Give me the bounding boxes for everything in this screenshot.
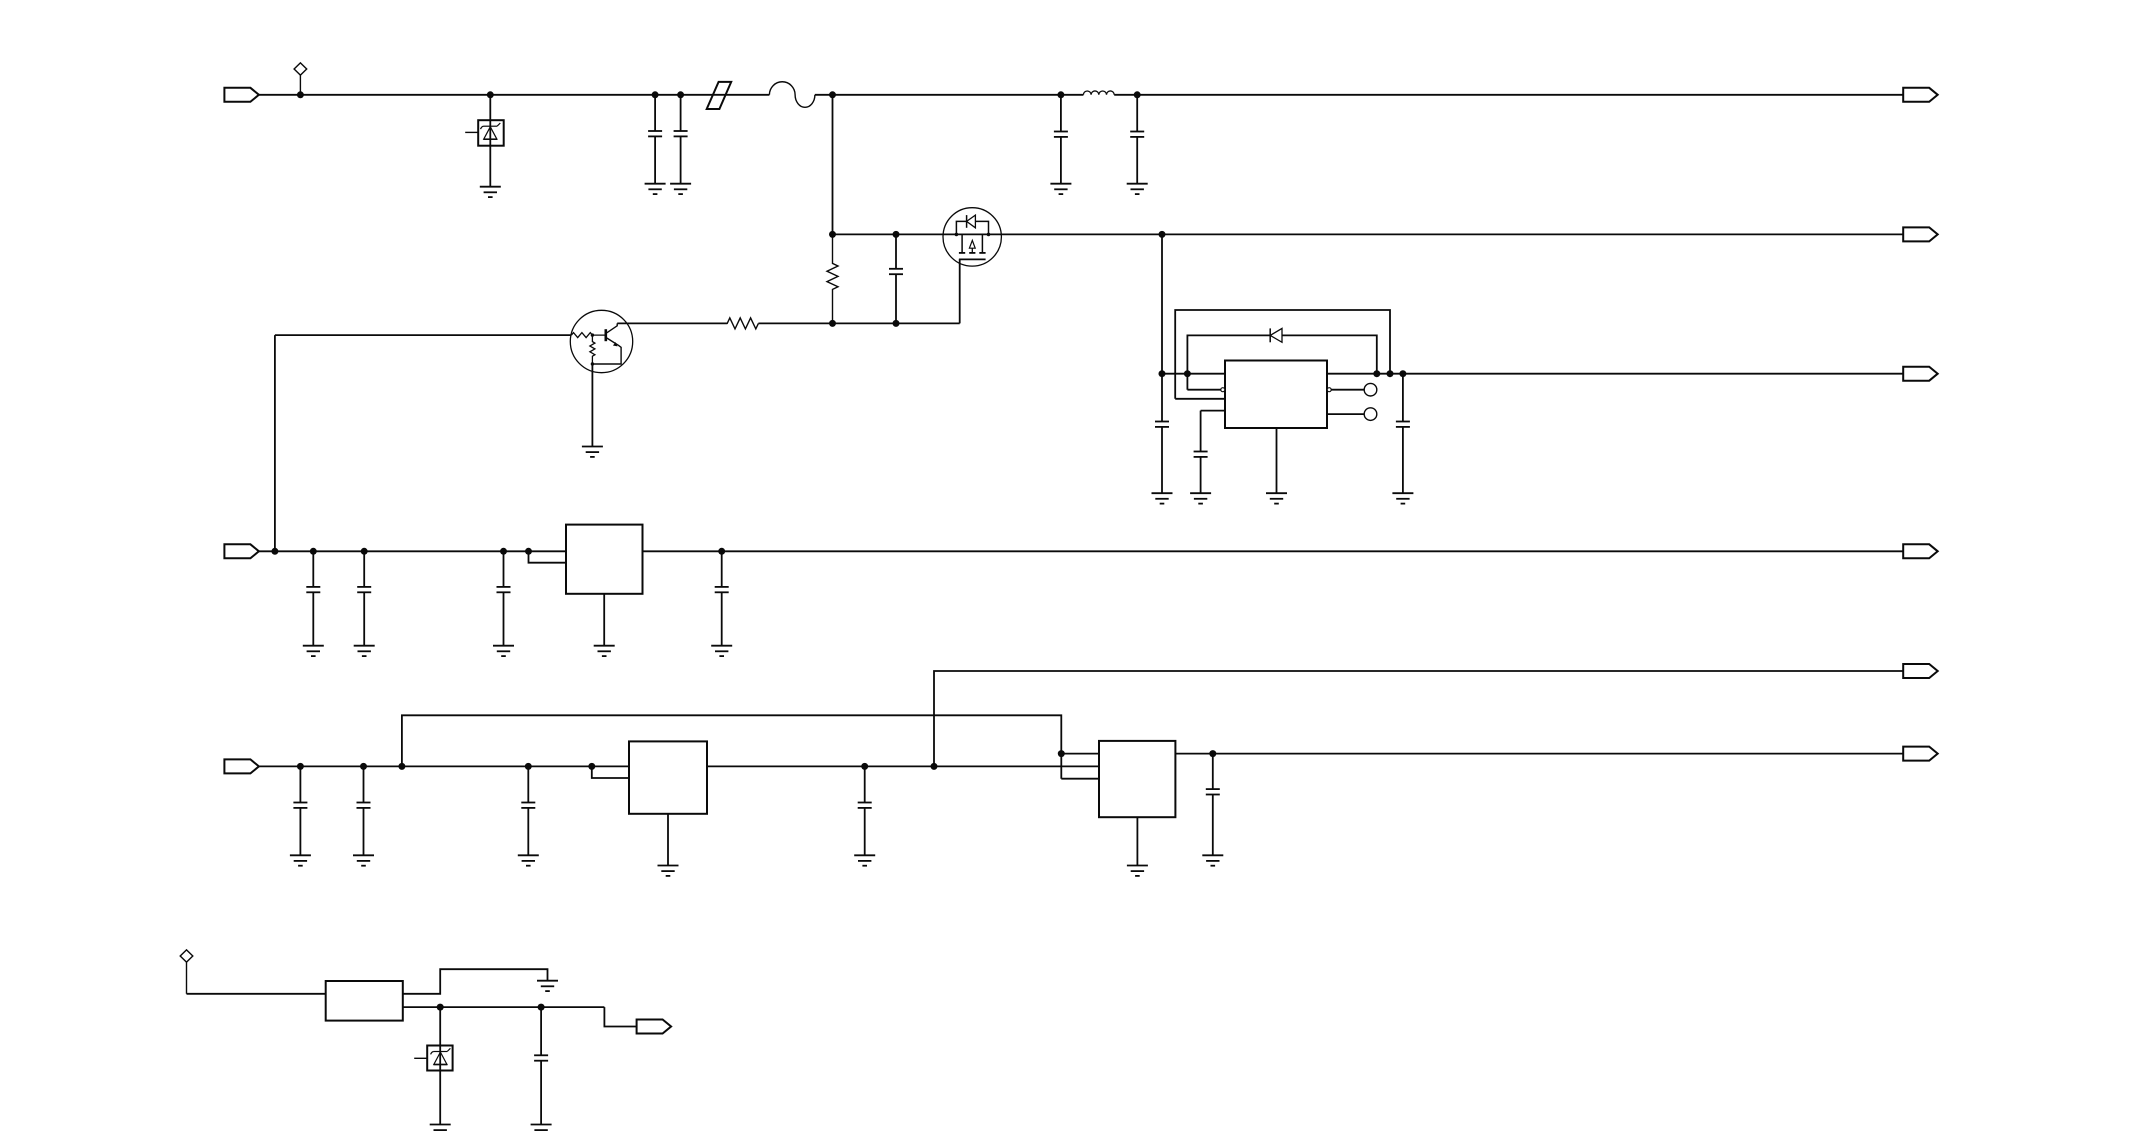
wire Q1 emitter to gnd [591,364,593,447]
capacitor C6 [1155,374,1169,494]
junction row5 sense tap [931,763,938,770]
wire U2 EN step [529,551,567,562]
connector J3 (right, row2) [1903,227,1938,241]
wire row1 to L2 [833,94,1084,96]
capacitor C17 [1206,754,1220,856]
U1 pin2 inversion circle [1221,388,1225,392]
junction row2 to U1 [1159,231,1166,238]
wire row5 out [1175,753,1903,755]
ground below C12 [711,646,732,656]
capacitor C9 [306,551,320,645]
junction row4 C9 [310,548,317,555]
ground FL1 [537,981,558,991]
wire U1 pin2 [1187,389,1220,391]
TVS diode D1 [465,120,504,146]
ground below C6 [1152,493,1173,503]
wire gate line [617,322,960,324]
wire U1 diode branch [1187,335,1376,389]
junction row1 node A [829,91,836,98]
junction row3 diode right [1373,370,1380,377]
junction bottom TVS tap [437,1004,444,1011]
ground below C13 [290,855,311,865]
wire row2 main [833,233,1904,235]
wire EN net [402,715,1099,778]
wire U4 gnd pin [1136,817,1138,865]
capacitor C2 [674,95,688,184]
connector J2 (right, row1) [1903,88,1938,102]
wire U1 top feedback [1175,310,1390,399]
junction row4 base tap [271,548,278,555]
junction gate line R1 [829,320,836,327]
ground below U4 [1127,866,1148,876]
junction row1 C3 [1057,91,1064,98]
IC U4 box [1099,741,1175,817]
resistor R2 [727,318,758,329]
capacitor C11 [497,551,511,645]
testpoint TP2 [1364,408,1377,421]
junction row4 EN tap [525,548,532,555]
ground below D3 [430,1125,451,1132]
junction row5 EN net tap [398,763,405,770]
wire U1 out3 [1327,413,1364,415]
capacitor C18 [534,1007,548,1124]
wire FL1 gnd loop [403,969,548,994]
junction row1 C4 [1134,91,1141,98]
capacitor C12 [715,551,729,645]
junction row5 C15 [525,763,532,770]
junction row1 C1 [652,91,659,98]
junction row1 diamond [297,91,304,98]
junction row5 C17 [1209,750,1216,757]
ground below U1 [1266,493,1287,503]
capacitor C1 [648,95,662,184]
inductor hump L1 (bead) [769,82,832,108]
connector J6 (right, row4) [1903,544,1938,558]
junction row4 C11 [500,548,507,555]
junction Q1 emitter node [591,362,594,365]
ground below C2 [670,184,691,194]
capacitor C4 [1130,95,1144,184]
wire row3 main [1162,373,1903,375]
wire node A down [832,95,834,235]
inductor L2 [1083,91,1114,95]
capacitor C14 [357,766,371,855]
diode D2 [1270,328,1282,342]
IC U2 box [566,525,643,594]
wire U3 gnd pin [667,814,669,866]
transistor Q2 (P-MOSFET with body diode) [943,208,1001,266]
wire U1 gnd pin [1276,428,1278,493]
wire row4 main [259,550,1903,552]
testpoint TP1 [1364,383,1377,396]
capacitor C3 [1054,95,1068,184]
ground below C7 [1190,493,1211,503]
junction row5 C16 [861,763,868,770]
ground below C16 [854,855,875,865]
wire U2 gnd pin [603,594,605,646]
ground below C17 [1202,855,1223,865]
U1 out2 inversion circle [1327,388,1331,392]
wire bottom out step [604,1007,636,1026]
capacitor C7 [1194,452,1208,494]
junction row3 left [1159,370,1166,377]
capacitor C10 [357,551,371,645]
IC U3 box [629,741,707,813]
wire Q2 gate down [959,259,961,323]
wire Q1 base [275,334,572,336]
ground below C15 [518,855,539,865]
ground below C14 [353,855,374,865]
capacitor C8 [1396,374,1410,494]
resistor R1 [827,234,838,323]
ground below Q1 [582,447,603,457]
wire U4 vin pin [1061,753,1099,755]
wire sense line [934,671,1903,766]
ground below C4 [1127,184,1148,194]
connector J10 (bottom out) [637,1020,672,1034]
junction U4 vin pin [1058,750,1065,757]
connector J9 (right, row5 out) [1903,747,1938,761]
TVS diode D3 [414,1046,452,1071]
wire TVS D3 lead [439,1007,441,1124]
junction bottom C18 [538,1004,545,1011]
junction row4 C12 [718,548,725,555]
connector J1 (left, row1 VIN) [224,88,259,102]
ground below C3 [1050,184,1071,194]
junction row3 diode left [1184,370,1191,377]
junction row3 fb right [1387,370,1394,377]
capacitor C15 [521,766,535,855]
wire U3 EN step [592,766,629,778]
diamond net-flag bottom [180,950,193,994]
wire U1 out2 [1331,389,1364,391]
filter FL1 box [326,981,403,1021]
junction Q2 drain pin [987,233,991,237]
IC U1 box [1225,361,1327,429]
wire row5 main [259,765,1099,767]
ground below C10 [354,646,375,656]
ground below D1 [480,187,501,197]
junction row2 node B [829,231,836,238]
capacitor C16 [858,766,872,855]
fuse F1 [707,82,732,109]
capacitor C5 [889,234,903,323]
connector J8 (right, sense) [1903,664,1938,678]
ground below C11 [493,646,514,656]
junction row1 TVS tap [487,91,494,98]
junction row2 C5 [893,231,900,238]
junction row5 U3 EN tap [588,763,595,770]
connector J7 (left, row5) [224,759,259,773]
junction row5 C14 [360,763,367,770]
transistor Q1 (digital NPN) [570,310,632,372]
ground below U2 [594,646,615,656]
wire bottom in [187,993,326,995]
junction Q2 source pin [955,233,959,237]
junction gate line C5 [893,320,900,327]
ground below C9 [303,646,324,656]
junction row4 C10 [361,548,368,555]
junction row1 C2 [677,91,684,98]
diamond net-flag row1 [294,63,307,95]
wire row1 main [259,94,770,96]
ground below U3 [658,866,679,876]
wire row2 down to row3 [1161,234,1163,373]
junction row3 C8 [1399,370,1406,377]
wire Q1 base vertical [274,335,276,551]
junction row5 C13 [297,763,304,770]
ground below C1 [645,184,666,194]
ground below C18 [531,1125,552,1132]
capacitor C13 [293,766,307,855]
wire U1 pin4 [1201,411,1225,452]
connector J4 (right, row3) [1903,367,1938,381]
wire bottom main [403,1006,605,1008]
wire TVS D1 lead [489,95,491,187]
wire row1 out [1114,94,1903,96]
ground below C8 [1392,493,1413,503]
connector J5 (left, row4) [224,544,259,558]
junction Q1 base node [591,333,594,336]
